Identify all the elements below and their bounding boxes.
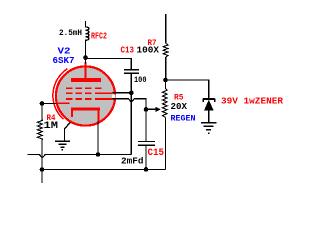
grid row 3 (dashes, lead exits right) — [66, 98, 112, 100]
svg-text:2.5mH: 2.5mH — [59, 28, 82, 38]
ground (cathode) — [65, 122, 71, 141]
resistor R4 1M — [37, 119, 42, 142]
svg-text:C13: C13 — [121, 46, 135, 56]
envelope feedthrough gap — [112, 95, 115, 98]
svg-text:C15: C15 — [148, 147, 165, 159]
svg-text:39V 1wZENER: 39V 1wZENER — [221, 97, 284, 107]
wire: zener to ground — [208, 110, 210, 122]
inductor RFC2 (2.5mH choke) — [86, 21, 89, 55]
svg-text:REGEN: REGEN — [171, 114, 196, 124]
wire: C13 bottom lead down to grid node — [130, 74, 132, 93]
svg-text:100: 100 — [134, 76, 147, 85]
wire: tube cathode pin down to rail A — [97, 121, 99, 155]
capacitor C15 — [138, 141, 155, 142]
node: R7/R5/zener junction dot — [163, 78, 168, 83]
wire: plate junction to tube — [85, 55, 87, 64]
wire: grid node to tube left pin — [42, 103, 57, 105]
wire: rail B — [42, 169, 166, 171]
svg-text:R7: R7 — [148, 38, 157, 48]
wire: tube grid row2 to C13 node — [113, 92, 132, 94]
wire: R4 top lead — [41, 104, 43, 119]
plate of V2 (red bar + lead) — [85, 62, 87, 79]
svg-text:20X: 20X — [171, 102, 188, 112]
wire: R4 bottom lead through hop to bottom stub — [41, 141, 43, 183]
grid row 2 (dashes, lead exits right) — [66, 92, 112, 94]
svg-text:R5: R5 — [174, 93, 184, 103]
node: cathode pin / rail A dot — [96, 152, 101, 157]
svg-text:1M: 1M — [44, 121, 59, 132]
wire: C15 bottom lead to rail B — [145, 146, 147, 169]
svg-text:V2: V2 — [58, 47, 71, 57]
node: plate junction dot — [83, 55, 88, 60]
wire: wiper arm toward R5 — [146, 108, 156, 110]
cathode of V2 (red bar with descenders) — [71, 108, 100, 111]
wire: tube grid row3 to regen wiper (with hop over vertical) — [113, 99, 147, 110]
capacitor C13 — [124, 69, 139, 71]
node: wiper junction dot — [144, 107, 149, 112]
wire: rail A (with hop over R4 column) — [28, 155, 132, 158]
node: rail B / R4 column dot — [40, 167, 45, 172]
node: grid/C13 junction dot — [129, 91, 134, 96]
grid row 1 (dashes) — [66, 87, 101, 89]
wire: R5 bottom lead down to rail B — [165, 118, 167, 170]
wire: plate junction to C13 — [86, 59, 132, 69]
svg-text:6SK7: 6SK7 — [53, 56, 75, 66]
node: C15/rail B junction dot — [144, 167, 149, 172]
wire: C13 node down to bottom rail A — [130, 93, 132, 155]
tube envelope double-trace arc — [53, 69, 68, 120]
wire: junction to zener — [166, 80, 209, 98]
zener diode D1 39V — [203, 99, 214, 102]
svg-text:2mFd: 2mFd — [121, 157, 144, 167]
resistor R5 20K REGEN — [165, 80, 167, 88]
resistor R7 100K — [165, 14, 167, 43]
tube V2 envelope — [56, 66, 115, 125]
grid left red lead stub — [56, 102, 70, 104]
ground (zener) — [201, 123, 217, 133]
wire: wiper node down to C15 — [145, 109, 147, 140]
wiper arrow of R5 — [156, 107, 162, 112]
svg-text:RFC2: RFC2 — [91, 31, 107, 42]
node: R4 top junction dot — [40, 101, 45, 106]
